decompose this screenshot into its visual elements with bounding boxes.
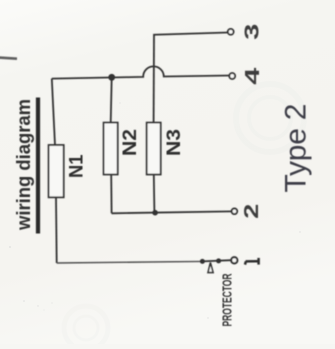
junction dot protector left [200,259,205,264]
wire: N1 bottom lead [55,197,58,263]
scan artifact line top-left [0,58,17,59]
svg-text:N2: N2 [120,129,141,156]
protector triangle [208,263,213,273]
resistor N2 [104,123,118,175]
junction dot protector right [216,258,221,263]
svg-text:wiring diagram: wiring diagram [14,99,35,231]
svg-text:N3: N3 [164,129,185,156]
wire: top bus from N1 corner to terminal 4 with hop [52,66,231,78]
faint scan speckles [9,102,301,318]
wire: N1 top lead [52,79,55,146]
svg-text:4: 4 [242,66,264,84]
svg-text:PROTECTOR: PROTECTOR [220,273,235,326]
faint stamp watermark upper right [236,84,304,152]
svg-text:2: 2 [241,204,263,219]
resistor N3 [147,123,161,175]
terminal 1 circle [231,257,237,263]
wire: terminal 3 branch [154,33,228,36]
terminal 2 circle [232,209,238,215]
terminal 4 circle [229,73,235,79]
wire: vertical from T3 corner down to N3 [153,35,155,123]
svg-text:Type 2: Type 2 [280,104,313,193]
junction dot bottom bus [152,210,158,216]
title underline [36,98,40,234]
wire: N2 top lead [111,77,112,122]
wire: bottom long wire to protector [57,261,203,263]
resistor N1 [49,145,64,197]
wire: protector to terminal 1 [202,260,231,261]
digit 1 [245,258,259,265]
wire: bottom bus to terminal 2 [112,211,232,213]
svg-text:N1: N1 [67,154,88,178]
wire: N3 bottom lead [153,175,156,213]
faint stamp watermark bottom [64,306,108,349]
terminal 3 circle [228,29,234,35]
svg-text:3: 3 [241,24,263,40]
junction dot top bus [108,74,115,81]
wire: N2 bottom lead [110,175,112,214]
